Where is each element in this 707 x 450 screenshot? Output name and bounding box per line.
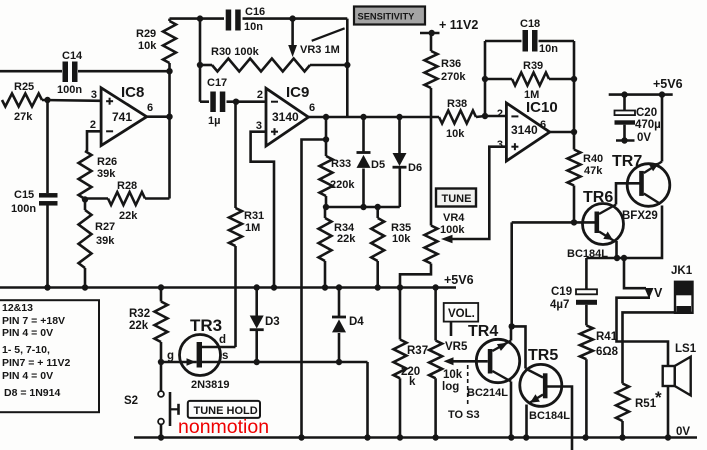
supply +5V6 right: [609, 77, 683, 95]
svg-text:3: 3: [256, 120, 262, 132]
svg-text:TR7: TR7: [612, 153, 642, 170]
wire VR3 right to main wire: [346, 19, 349, 117]
svg-text:3140: 3140: [511, 123, 538, 137]
resistor R51: [616, 384, 662, 441]
resistor R41: [580, 325, 619, 440]
svg-text:47k: 47k: [584, 165, 603, 177]
wire IC9 feedback down: [323, 117, 329, 143]
svg-text:10k: 10k: [446, 128, 465, 140]
svg-text:IC8: IC8: [121, 84, 144, 101]
resistor R31: [229, 102, 264, 246]
wire R27 to rail: [82, 268, 88, 291]
wire IC8 pin2 feedback: [87, 131, 101, 151]
transistor TR4: [467, 323, 520, 399]
svg-text:IC10: IC10: [526, 99, 558, 116]
svg-text:TO S3: TO S3: [448, 409, 480, 421]
svg-text:SENSITIVITY: SENSITIVITY: [358, 12, 416, 22]
resistor R28: [85, 180, 170, 222]
wire C18 left vert: [482, 41, 488, 116]
label 0V bottom: [676, 426, 690, 438]
svg-text:D6: D6: [408, 162, 422, 174]
node R26 R27 R28: [82, 196, 88, 202]
pot VR3 wiper arrow: [288, 19, 344, 57]
op-amp IC10: [497, 99, 558, 161]
svg-text:3: 3: [91, 89, 97, 101]
svg-text:+5V6: +5V6: [653, 77, 683, 91]
wire TR6 emitter down: [614, 241, 620, 261]
svg-text:PIN 7 = +18V: PIN 7 = +18V: [2, 315, 65, 327]
svg-text:2: 2: [497, 108, 503, 120]
switch S2: [124, 362, 179, 438]
resistor R39: [485, 60, 577, 101]
rail 0V: [134, 434, 697, 440]
resistor R38: [439, 98, 485, 140]
svg-text:R27: R27: [95, 221, 115, 233]
resistor R30 / pot VR3 track: [200, 44, 350, 72]
capacitor C20: [615, 91, 661, 144]
rail +5V6: [0, 284, 456, 290]
svg-text:VOL.: VOL.: [448, 308, 475, 320]
svg-text:4µ7: 4µ7: [550, 299, 569, 311]
svg-text:IC9: IC9: [286, 84, 309, 101]
svg-text:TR3: TR3: [190, 316, 222, 335]
svg-text:22k: 22k: [337, 233, 356, 245]
capacitor C19: [550, 258, 597, 325]
svg-text:R30 100k: R30 100k: [211, 46, 260, 58]
svg-text:R36: R36: [441, 58, 461, 70]
svg-text:TUNE: TUNE: [442, 193, 472, 205]
svg-text:10k: 10k: [443, 369, 463, 381]
svg-text:TR6: TR6: [583, 189, 613, 206]
capacitor C15: [11, 189, 58, 215]
test point V arrow: [624, 258, 663, 300]
wire IC9 pin3 path: [251, 132, 278, 291]
pot VR5 wiper: [442, 341, 488, 393]
transistor TR3: [161, 316, 368, 391]
svg-text:R37: R37: [407, 345, 428, 357]
svg-text:39k: 39k: [97, 168, 116, 180]
svg-text:g: g: [167, 350, 174, 362]
wire IC8 output: [147, 68, 173, 120]
pot VR4 track: [425, 212, 466, 264]
wire LS1 to 0V rail: [665, 386, 671, 441]
svg-text:C18: C18: [520, 18, 540, 30]
svg-text:R31: R31: [244, 210, 264, 222]
svg-text:TR4: TR4: [468, 323, 498, 340]
svg-text:2: 2: [90, 119, 96, 131]
svg-text:R25: R25: [14, 81, 34, 93]
svg-text:*: *: [655, 388, 662, 407]
svg-text:22k: 22k: [129, 320, 149, 332]
wire C14 left segment: [0, 70, 62, 73]
wire TR6 base to TR4 node: [509, 222, 515, 329]
wire VR4 bottom dogleg: [397, 264, 431, 340]
op-amp IC8: [90, 84, 153, 146]
speaker LS1: [663, 343, 697, 395]
svg-text:TR5: TR5: [528, 347, 558, 364]
svg-text:k: k: [409, 376, 416, 388]
resistor R27: [79, 200, 116, 269]
transistor TR5: [520, 347, 570, 422]
wire main signal line: [326, 114, 439, 120]
svg-text:220k: 220k: [330, 179, 355, 191]
svg-text:6: 6: [147, 102, 153, 114]
svg-text:1µ: 1µ: [208, 115, 220, 127]
resistor R29: [136, 19, 176, 72]
svg-text:R33: R33: [331, 158, 351, 170]
svg-text:BC184L: BC184L: [529, 410, 570, 422]
svg-text:+ 11V2: + 11V2: [439, 18, 478, 32]
svg-text:BFX29: BFX29: [622, 210, 658, 222]
svg-text:10k: 10k: [138, 40, 157, 52]
svg-text:R51: R51: [635, 398, 657, 410]
wire C15 to +5V6 rail: [46, 206, 49, 288]
resistor R40: [568, 132, 604, 222]
svg-text:BC214L: BC214L: [467, 387, 508, 399]
svg-text:D3: D3: [265, 316, 280, 328]
pot VR5 track: [429, 284, 442, 440]
annotation nonmotion: [178, 416, 269, 438]
svg-text:R29: R29: [136, 28, 156, 40]
resistor R37: [394, 340, 429, 441]
resistor R25: [2, 81, 42, 123]
svg-text:PIN 4 = 0V: PIN 4 = 0V: [2, 370, 53, 382]
svg-text:22k: 22k: [119, 210, 138, 222]
svg-text:12&13: 12&13: [2, 302, 33, 314]
svg-text:27k: 27k: [14, 111, 33, 123]
wire TR3 source run dots: [254, 359, 343, 365]
wire diode bottom run: [326, 204, 400, 210]
svg-text:PIN 4 = 0V: PIN 4 = 0V: [2, 327, 53, 339]
diode D3: [250, 288, 280, 363]
svg-text:2N3819: 2N3819: [191, 379, 230, 391]
svg-text:C17: C17: [207, 77, 227, 89]
capacitor C18: [485, 18, 574, 55]
svg-text:6Ω8: 6Ω8: [596, 346, 619, 358]
wire C17 to IC9 pin2: [227, 99, 267, 105]
svg-text:LS1: LS1: [675, 343, 697, 355]
wire source branch to 0V: [366, 362, 369, 438]
diode D4: [332, 288, 364, 363]
transistor TR7: [612, 153, 670, 222]
resistor R26: [79, 151, 118, 199]
info text box: [0, 300, 99, 412]
capacitor C17: [200, 77, 227, 127]
svg-text:S2: S2: [124, 395, 138, 407]
resistor R32: [129, 288, 168, 366]
label TUNE HOLD: [188, 401, 260, 418]
wire R25 to IC8 pin3: [42, 97, 101, 103]
wire R38 to IC10 pin2: [482, 113, 507, 119]
transistor TR6: [567, 189, 624, 260]
svg-text:100k: 100k: [440, 224, 465, 236]
wire R36 to VR4: [430, 88, 433, 226]
wire TR4 collector down: [508, 382, 514, 441]
svg-text:V: V: [654, 286, 663, 300]
svg-text:R41: R41: [596, 331, 618, 343]
svg-text:6: 6: [309, 102, 315, 114]
svg-text:R40: R40: [583, 153, 603, 165]
wire JK1 to R51: [623, 312, 677, 383]
svg-text:100n: 100n: [57, 84, 82, 96]
capacitor C14: [57, 50, 83, 96]
svg-text:VR5: VR5: [445, 341, 468, 353]
wire C14 right segment: [78, 70, 170, 73]
supply +11V2: [420, 18, 478, 36]
svg-text:100n: 100n: [11, 203, 36, 215]
label TUNE: [436, 189, 476, 207]
svg-text:D5: D5: [371, 159, 385, 171]
label VOL: [444, 303, 479, 336]
wire top feedback run: [170, 15, 348, 21]
capacitor C16: [226, 6, 265, 33]
wire IC10 output: [550, 129, 578, 135]
svg-text:741: 741: [112, 110, 132, 124]
diode D6: [393, 117, 423, 207]
wire IC10 pin3 to VR4 wiper: [441, 147, 506, 244]
resistor R36: [425, 33, 467, 88]
svg-text:3: 3: [497, 139, 503, 151]
svg-text:R39: R39: [523, 60, 543, 72]
diode D5: [357, 117, 386, 207]
wire feedback dogleg: [298, 140, 326, 441]
svg-text:270k: 270k: [441, 71, 466, 83]
svg-text:1- 5, 7-10,: 1- 5, 7-10,: [2, 344, 50, 356]
wire C16 node down: [197, 19, 203, 102]
wire TR5 emitter down: [523, 405, 529, 441]
svg-text:d: d: [219, 334, 226, 346]
svg-text:R28: R28: [117, 180, 137, 192]
wire TR5 base to S3: [548, 387, 573, 450]
svg-text:nonmotion: nonmotion: [178, 416, 269, 438]
wire TR6 base run: [512, 219, 595, 225]
svg-text:C19: C19: [551, 286, 572, 298]
svg-text:0V: 0V: [637, 132, 651, 144]
svg-text:C15: C15: [14, 189, 34, 201]
op-amp IC9: [256, 84, 315, 146]
svg-text:C14: C14: [62, 50, 83, 62]
wire to LS1: [617, 298, 669, 365]
wire IC9 output: [308, 114, 329, 120]
jack JK1: [671, 265, 693, 313]
svg-text:R26: R26: [97, 156, 117, 168]
wire TR6 collector to TR7 base: [616, 183, 640, 204]
svg-text:1M: 1M: [245, 222, 260, 234]
svg-text:6: 6: [540, 119, 546, 131]
svg-text:39k: 39k: [96, 235, 115, 247]
resistor R34: [319, 207, 357, 291]
svg-text:VR3 1M: VR3 1M: [300, 44, 340, 56]
svg-text:C16: C16: [245, 6, 265, 18]
label SENSITIVITY: [354, 7, 425, 25]
wire IC8 output to R28: [168, 71, 171, 198]
svg-text:JK1: JK1: [671, 265, 693, 277]
svg-text:log: log: [442, 381, 459, 393]
dashed line TO S3: [448, 365, 480, 421]
svg-text:3140: 3140: [272, 110, 299, 124]
svg-text:2: 2: [257, 89, 263, 101]
svg-text:+5V6: +5V6: [444, 273, 474, 287]
svg-text:s: s: [222, 350, 228, 362]
wire TR4 emitter up: [510, 326, 513, 340]
wire C18 right vert: [573, 41, 576, 132]
svg-text:R38: R38: [447, 98, 467, 110]
resistor R35: [371, 207, 411, 291]
svg-text:10n: 10n: [244, 21, 263, 33]
svg-text:PIN7 = + 11V2: PIN7 = + 11V2: [2, 357, 70, 369]
svg-text:C20: C20: [636, 107, 657, 119]
wire TR7 collector up: [659, 91, 665, 161]
resistor R33: [320, 140, 356, 211]
svg-text:D8 = 1N914: D8 = 1N914: [4, 387, 60, 399]
svg-text:10k: 10k: [392, 233, 411, 245]
svg-text:470µ: 470µ: [635, 119, 661, 131]
wire R31 to TR3 drain: [234, 246, 237, 347]
svg-text:VR4: VR4: [443, 212, 465, 224]
wire TR7 emitter down: [586, 206, 662, 262]
svg-text:R32: R32: [129, 308, 150, 320]
svg-text:10n: 10n: [539, 43, 558, 55]
wire node to C15: [46, 100, 49, 193]
svg-text:D4: D4: [349, 316, 364, 328]
label +5V6 mid: [444, 273, 474, 287]
wire TR4 node to TR5 collector: [512, 326, 526, 368]
